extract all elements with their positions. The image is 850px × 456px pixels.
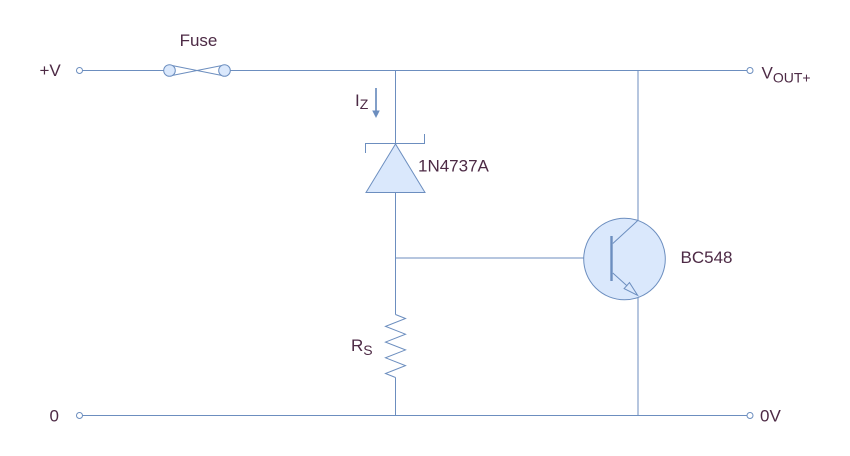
svg-text:Fuse: Fuse: [180, 31, 218, 50]
svg-text:0: 0: [50, 407, 59, 426]
svg-text:0V: 0V: [760, 407, 781, 426]
svg-text:BC548: BC548: [681, 248, 733, 267]
svg-text:+V: +V: [40, 61, 62, 80]
svg-text:1N4737A: 1N4737A: [418, 157, 490, 176]
